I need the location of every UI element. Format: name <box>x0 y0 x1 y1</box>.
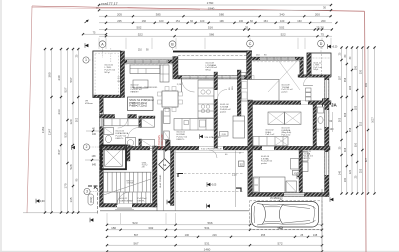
svg-text:455: 455 <box>261 233 266 237</box>
svg-text:516: 516 <box>208 26 213 30</box>
svg-text:567: 567 <box>134 233 139 237</box>
svg-text:205: 205 <box>117 19 122 23</box>
central horizontal wall <box>100 146 331 150</box>
bed T room <box>241 80 279 102</box>
H wall right column <box>253 101 332 105</box>
svg-text:170: 170 <box>64 183 68 188</box>
svg-text:2: 2 <box>86 145 88 149</box>
left wall lower <box>100 95 104 207</box>
S.SOBA door arc + labels <box>218 90 228 100</box>
bathroom S1 walls <box>100 115 115 119</box>
svg-text:25,30: 25,30 <box>316 26 324 30</box>
svg-text:330: 330 <box>360 69 363 74</box>
tall kitchen units column <box>161 111 163 147</box>
coffee table <box>133 80 148 88</box>
svg-text:240: 240 <box>57 75 61 80</box>
porch corridor lines <box>163 150 165 211</box>
svg-text:1760: 1760 <box>207 1 214 5</box>
svg-text:580: 580 <box>219 12 224 16</box>
svg-text:566: 566 <box>209 32 214 36</box>
svg-text:502: 502 <box>279 26 284 30</box>
wardrobes X <box>268 112 285 125</box>
svg-text:D: D <box>320 42 323 46</box>
sofa <box>130 65 160 74</box>
svg-text:100: 100 <box>92 133 97 136</box>
svg-text:308: 308 <box>344 147 347 152</box>
svg-text:163: 163 <box>297 19 302 23</box>
small arrow mark <box>85 20 89 23</box>
svg-text:340: 340 <box>279 12 284 16</box>
svg-text:502: 502 <box>136 26 141 30</box>
svg-text:75: 75 <box>321 32 325 36</box>
porch dashed lines <box>176 173 244 175</box>
stairs lower flight <box>119 192 121 203</box>
svg-text:527: 527 <box>64 87 68 92</box>
svg-text:390: 390 <box>365 82 368 87</box>
svg-text:NPO 9x17,2/28: NPO 9x17,2/28 <box>127 181 135 185</box>
outer wall top C-D <box>251 57 304 60</box>
S1 diamond <box>159 159 171 171</box>
svg-text:530: 530 <box>64 132 68 137</box>
svg-text:200: 200 <box>321 19 326 23</box>
svg-text:140: 140 <box>339 170 342 175</box>
grid dashed stubs <box>102 48 104 58</box>
nightstand bedT <box>241 73 247 77</box>
svg-text:522: 522 <box>281 32 286 36</box>
svg-text:196: 196 <box>219 19 224 23</box>
ground line <box>100 210 249 212</box>
svg-text:cca177,17: cca177,17 <box>101 2 118 6</box>
svg-text:2,20: 2,20 <box>294 173 299 175</box>
property boundary red lines <box>32 6 365 11</box>
wall V2 bedroom T <box>237 70 241 116</box>
svg-text:380: 380 <box>48 72 52 77</box>
svg-text:303: 303 <box>339 117 342 122</box>
svg-text:385: 385 <box>156 12 161 16</box>
svg-text:190: 190 <box>344 177 347 182</box>
section dashed continuation <box>97 188 99 215</box>
svg-text:JA: JA <box>331 102 338 107</box>
svg-text:358: 358 <box>344 77 347 82</box>
(162) box <box>88 194 94 205</box>
svg-text:0,00: 0,00 <box>40 201 45 203</box>
svg-text:550: 550 <box>354 142 357 147</box>
svg-text:187: 187 <box>339 75 342 80</box>
svg-text:120: 120 <box>69 119 73 124</box>
extension stubs <box>98 38 100 49</box>
svg-text:NE MJENJATI: NE MJENJATI <box>161 133 164 149</box>
wc fixtures <box>318 107 324 113</box>
svg-text:531: 531 <box>204 226 209 230</box>
svg-text:100: 100 <box>330 128 335 131</box>
elevator shaft <box>101 145 126 169</box>
svg-text:100: 100 <box>239 19 244 23</box>
pier C <box>247 51 252 80</box>
hall boxes <box>306 88 312 92</box>
svg-text:2,20: 2,20 <box>232 175 237 177</box>
svg-text:-0,05: -0,05 <box>211 184 217 186</box>
kitchen L: horizontal run <box>174 119 214 131</box>
svg-text:528: 528 <box>69 164 73 169</box>
svg-text:845: 845 <box>92 164 97 167</box>
svg-text:1940: 1940 <box>208 6 215 10</box>
svg-text:100: 100 <box>280 19 285 23</box>
svg-text:627: 627 <box>365 157 368 162</box>
right dimension chains <box>341 48 343 194</box>
svg-text:151: 151 <box>176 19 181 23</box>
porch-side wall <box>171 150 175 206</box>
svg-text:216: 216 <box>212 233 217 237</box>
svg-text:522: 522 <box>138 32 143 36</box>
svg-text:183: 183 <box>354 105 357 110</box>
wardrobe hatched <box>286 181 297 192</box>
porch extras <box>235 151 237 208</box>
svg-text:1027: 1027 <box>372 117 375 123</box>
svg-text:233: 233 <box>57 109 61 114</box>
X diagonals <box>268 58 300 92</box>
svg-text:1: 1 <box>85 58 87 62</box>
svg-text:567: 567 <box>69 77 73 82</box>
svg-text:358: 358 <box>349 127 352 132</box>
svg-text:302: 302 <box>75 117 78 122</box>
wall V5 below center <box>299 150 303 193</box>
stairwell walls <box>100 145 131 150</box>
stairs upper flight <box>103 172 105 192</box>
terrace bottom wall <box>93 95 125 97</box>
svg-text:847: 847 <box>57 149 61 154</box>
svg-text:531: 531 <box>204 241 209 245</box>
svg-text:390: 390 <box>354 65 357 70</box>
left dimension chains <box>23 212 97 214</box>
svg-text:200: 200 <box>315 12 320 16</box>
roof overhang dashed line <box>178 55 251 57</box>
svg-text:523: 523 <box>132 221 137 225</box>
svg-text:154: 154 <box>263 19 268 23</box>
kitchen wall V1 <box>214 72 218 148</box>
apartment label box S1 <box>128 97 154 111</box>
outer wall top A-B <box>121 57 177 59</box>
parking outline <box>250 201 323 230</box>
svg-text:100: 100 <box>185 233 190 237</box>
svg-text:+0,20: +0,20 <box>332 46 339 48</box>
hall closets <box>141 116 155 118</box>
svg-text:100: 100 <box>200 19 205 23</box>
bottom dimension chains <box>107 224 322 226</box>
svg-text:S2: S2 <box>240 162 244 166</box>
terrace top-middle <box>173 51 252 53</box>
washer boxes <box>302 152 309 161</box>
wall V4b <box>313 101 317 149</box>
svg-text:ULAZ STAMB.: ULAZ STAMB. <box>159 174 162 188</box>
terrace top-left <box>93 51 121 97</box>
svg-text:VO Ø10mm: VO Ø10mm <box>270 197 283 200</box>
kitchen L: vertical run <box>198 80 214 118</box>
svg-text:S 02 U POTKROVLJE: S 02 U POTKROVLJE <box>201 148 222 150</box>
svg-text:572: 572 <box>277 241 282 245</box>
svg-text:253: 253 <box>360 168 363 173</box>
bottom counter boxes <box>253 137 288 146</box>
svg-text:120: 120 <box>349 169 352 174</box>
svg-text:183: 183 <box>349 85 352 90</box>
svg-text:1182: 1182 <box>41 126 45 133</box>
left wall upper <box>121 51 125 97</box>
car top view <box>252 200 319 229</box>
wall V4a <box>300 61 304 78</box>
svg-text:138: 138 <box>92 155 97 158</box>
svg-text:166: 166 <box>142 19 147 23</box>
svg-text:100: 100 <box>159 19 164 23</box>
bottom wall of right rooms <box>248 193 329 197</box>
svg-text:567: 567 <box>133 241 138 245</box>
svg-text:566: 566 <box>207 221 212 225</box>
dining table S1 <box>162 91 178 107</box>
svg-text:VIS. ETAZE 280: VIS. ETAZE 280 <box>205 136 222 139</box>
wall V3 <box>248 100 253 197</box>
svg-text:(162): (162) <box>89 197 93 203</box>
svg-text:302: 302 <box>148 226 153 230</box>
svg-text:306: 306 <box>344 112 347 117</box>
svg-text:1460: 1460 <box>204 248 211 252</box>
right outer wall <box>325 77 330 197</box>
door arc hall <box>303 76 313 86</box>
svg-text:3: 3 <box>86 190 88 194</box>
svg-text:135: 135 <box>69 197 73 202</box>
svg-text:138: 138 <box>313 233 318 237</box>
terrace bottom wall w/ glazing <box>178 76 247 80</box>
svg-text:313: 313 <box>360 121 363 126</box>
svg-text:1147: 1147 <box>48 128 52 135</box>
entry door swing <box>117 192 130 205</box>
svg-text:205: 205 <box>117 12 122 16</box>
svg-text:180: 180 <box>111 226 116 230</box>
terrace top-right <box>307 53 331 76</box>
svg-text:35: 35 <box>245 26 249 30</box>
pier B <box>173 57 178 80</box>
2,20 box <box>293 170 301 175</box>
svg-text:00.01.03KUHINJA(Blag.Kuh)P=5,2: 00.01.03KUHINJA(Blag.Kuh)P=5,2 m2 <box>282 128 292 137</box>
svg-text:C: C <box>249 42 252 46</box>
stair cut diagonal <box>102 179 151 196</box>
